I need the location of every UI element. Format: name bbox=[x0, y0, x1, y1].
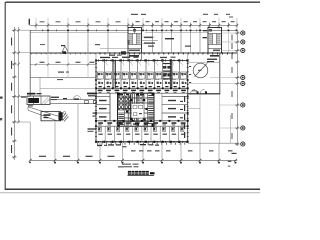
tower west rooms partitions bbox=[96, 97, 110, 114]
tower east wall bbox=[187, 60, 189, 141]
annex label above rooms bbox=[27, 93, 36, 95]
note above title bbox=[122, 164, 139, 168]
window ticks row on north wall bbox=[42, 30, 197, 32]
wing mezzanine line bbox=[100, 48, 128, 50]
upper wing south wall with mullions bbox=[30, 52, 237, 54]
core shaft vertical bars bbox=[128, 94, 136, 122]
top dimension ticks bbox=[35, 23, 239, 28]
left dimension line inner bbox=[18, 27, 20, 122]
door jamb bbox=[197, 91, 199, 94]
door jamb2 bbox=[205, 91, 207, 94]
corridor door arc bbox=[73, 96, 77, 100]
top rooms entry arcs bbox=[104, 63, 182, 66]
spiral ramp circle bbox=[193, 63, 208, 78]
upper wing north wall bbox=[30, 29, 237, 31]
door marks near tower west wall bbox=[93, 113, 97, 117]
core dark blobs bbox=[117, 93, 155, 128]
annex dark text right bbox=[87, 93, 97, 95]
left dimension line outer bbox=[13, 27, 15, 160]
tower top corridor north wall bbox=[96, 87, 188, 89]
bottom corridor wall junction dots bbox=[95, 120, 189, 122]
lower right boundary line bbox=[188, 142, 237, 144]
top band service cluster bbox=[163, 63, 171, 79]
stair core 1 outline bbox=[128, 28, 142, 54]
courtyard grid lines below bbox=[188, 94, 231, 143]
tower bottom corridor north wall bbox=[96, 120, 188, 122]
annex text a bbox=[58, 72, 64, 73]
upper wing left wall bbox=[29, 30, 31, 96]
box dark end bbox=[59, 112, 63, 120]
right dimension figures bbox=[232, 35, 233, 140]
courtyard south wall bbox=[188, 93, 220, 95]
bottom corridor extra marks bbox=[98, 123, 184, 126]
circle diagonal bbox=[195, 64, 207, 77]
below-tower tick marks bbox=[97, 143, 185, 145]
drawing frame top border bbox=[6, 1, 261, 3]
core right cells bbox=[139, 96, 144, 122]
below-tower texts bbox=[97, 145, 102, 146]
corridor lines bbox=[50, 99, 96, 101]
upper wing north wall inner line right bbox=[145, 32, 208, 34]
tower side wall window ticks bbox=[95, 63, 189, 137]
circle label leader bbox=[206, 62, 210, 65]
annex dim line bbox=[30, 64, 96, 66]
annex hatch bbox=[42, 98, 50, 105]
title glyph slits bbox=[128, 172, 148, 174]
top dimension figures row bbox=[40, 14, 235, 22]
west rooms beds bbox=[99, 100, 107, 118]
circle label line1 bbox=[207, 59, 217, 60]
dimension text column right of tower bbox=[184, 96, 185, 138]
stair core 1 internal bbox=[128, 28, 142, 49]
page bottom edge faint line bbox=[0, 192, 260, 194]
east wall outside dim ticks bbox=[189, 66, 191, 83]
east rooms partitions bbox=[162, 97, 188, 114]
small circle right of box bbox=[63, 112, 66, 115]
door symbol upper wing bbox=[62, 46, 68, 52]
tower outer south wall bbox=[96, 141, 188, 143]
annex text row2 bbox=[51, 99, 57, 100]
core stair treads west lower bbox=[118, 114, 124, 125]
annex line y77 bbox=[57, 79, 63, 80]
top corridor extra text row bbox=[99, 91, 185, 94]
tower bottom room partitions bbox=[105, 126, 178, 142]
tower north wall window ticks bbox=[98, 60, 187, 62]
core center lobby whitening bbox=[132, 104, 144, 118]
box text1 bbox=[44, 114, 51, 116]
upper wing mid texts bbox=[165, 38, 174, 39]
tower perimeter columns bbox=[95, 59, 189, 143]
elevator cars with X bbox=[119, 96, 131, 110]
tower top rooms bathroom units bbox=[97, 72, 187, 79]
stray mark left edge B bbox=[0, 118, 2, 120]
bottom main dimension line bbox=[30, 159, 237, 161]
annex room block bbox=[27, 96, 50, 105]
right dimension line bbox=[236, 30, 238, 146]
core stair treads east bbox=[148, 95, 153, 124]
left dimension figures (rotated) bbox=[11, 38, 12, 154]
tower outer north wall bbox=[96, 59, 188, 61]
stair core 1 treads bbox=[127, 29, 140, 51]
ramp slant lines bbox=[28, 107, 62, 118]
corridor end marks bbox=[85, 100, 89, 103]
tower top room partitions bbox=[104, 60, 179, 88]
tower south wall window ticks bbox=[98, 141, 187, 143]
text below core 1 bbox=[129, 55, 139, 57]
bottom corridor doors/numbers bbox=[98, 122, 185, 124]
core top/bottom inner marks bbox=[119, 94, 148, 125]
upper wing partitions bbox=[48, 30, 200, 53]
ramp machine box bbox=[41, 112, 61, 121]
top corridor wall junction dots bbox=[95, 87, 189, 89]
wing-tower connector walls bbox=[127, 53, 129, 60]
grid extension verticals left area bbox=[48, 30, 229, 77]
east rooms beds bbox=[168, 100, 183, 118]
bottom extension lines bbox=[30, 104, 219, 160]
top rooms door arcs bbox=[104, 73, 183, 77]
stair core 2 treads bbox=[209, 29, 221, 51]
title underline bbox=[128, 175, 155, 177]
core internal walls bbox=[118, 93, 155, 126]
hatch scribble bbox=[61, 113, 69, 122]
right grid bubbles bbox=[241, 31, 245, 146]
bottom rooms fixtures bbox=[98, 127, 184, 131]
central service core outline bbox=[118, 93, 155, 126]
right dimension ticks bbox=[235, 32, 240, 146]
upper wing north wall inner line bbox=[30, 32, 128, 34]
annex text row1 bbox=[51, 97, 59, 98]
stair core 2 internal bbox=[208, 34, 222, 49]
bottom dim ticks bbox=[29, 159, 237, 162]
dim figures right row bbox=[131, 150, 233, 151]
text below annex r2 bbox=[88, 131, 94, 132]
texts above tower bbox=[100, 57, 110, 58]
east corridor wall bbox=[161, 93, 163, 121]
annex dark room fill bbox=[28, 98, 39, 103]
circle center mark bbox=[198, 70, 202, 71]
stair core 2 outline bbox=[208, 28, 222, 54]
circle label line2 bbox=[207, 61, 214, 62]
left grid extension lines bbox=[14, 30, 30, 122]
annex line y88 bbox=[40, 88, 96, 90]
tower west wall bbox=[95, 60, 97, 141]
core 1 labels bbox=[144, 37, 153, 39]
drawing frame left border bbox=[4, 2, 6, 190]
top rooms bathroom walls bbox=[96, 79, 184, 81]
upper wing wall columns bbox=[47, 30, 237, 32]
box text2 bbox=[44, 117, 49, 118]
courtyard text bbox=[192, 90, 197, 91]
stray mark left edge A bbox=[0, 97, 3, 99]
right extension horizontals bbox=[188, 33, 237, 128]
top band heavy walls bbox=[114, 60, 172, 88]
bottom rooms labels bbox=[98, 134, 185, 135]
west corridor wall bbox=[109, 93, 111, 121]
tower bottom corridor south wall bbox=[96, 125, 188, 127]
left dimension ticks bbox=[12, 29, 20, 158]
text below annex r1 bbox=[88, 128, 97, 129]
dim figures left row bbox=[39, 156, 115, 157]
below tower extra texts bbox=[108, 144, 159, 147]
right-bottom small text bbox=[228, 161, 232, 162]
courtyard top wall bbox=[188, 61, 220, 63]
tower top corridor south wall bbox=[96, 92, 188, 94]
top grid extension risers bbox=[36, 18, 237, 31]
top dimension line bbox=[30, 24, 239, 26]
drawing frame bottom border bbox=[5, 188, 260, 190]
core 2 labels bbox=[203, 30, 207, 31]
text below core 2 bbox=[210, 55, 219, 57]
courtyard doors bbox=[191, 89, 205, 94]
top corridor room doors/numbers bbox=[98, 86, 186, 91]
title block bbox=[128, 171, 155, 175]
courtyard east wall bbox=[219, 53, 221, 94]
